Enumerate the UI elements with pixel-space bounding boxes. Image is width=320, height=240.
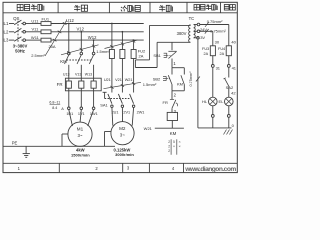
svg-text:FU3: FU3 bbox=[202, 47, 209, 51]
svg-text:U11: U11 bbox=[31, 18, 39, 23]
svg-text:SB2: SB2 bbox=[153, 77, 161, 82]
svg-text:SB1: SB1 bbox=[153, 53, 161, 58]
svg-text:3000r/min: 3000r/min bbox=[115, 152, 134, 157]
svg-text:V13: V13 bbox=[75, 72, 81, 76]
svg-text:U13: U13 bbox=[63, 72, 70, 76]
svg-text:HL: HL bbox=[202, 99, 208, 104]
svg-text:2A: 2A bbox=[219, 52, 224, 56]
svg-text:2: 2 bbox=[168, 145, 170, 149]
svg-text:2: 2 bbox=[168, 149, 170, 153]
svg-text:380V: 380V bbox=[177, 31, 187, 36]
svg-text:50Hz: 50Hz bbox=[15, 49, 25, 54]
svg-text:0.75mm²: 0.75mm² bbox=[210, 29, 226, 34]
svg-text:W11: W11 bbox=[31, 35, 40, 40]
svg-text:W13: W13 bbox=[85, 72, 92, 76]
svg-text:2V1: 2V1 bbox=[123, 110, 130, 114]
svg-text:1W1: 1W1 bbox=[90, 112, 98, 116]
svg-text:U21: U21 bbox=[104, 78, 111, 82]
svg-text:5: 5 bbox=[173, 140, 175, 144]
svg-text:41: 41 bbox=[232, 65, 237, 70]
svg-text:1.5mm²: 1.5mm² bbox=[96, 49, 110, 54]
svg-text:V21: V21 bbox=[115, 78, 122, 82]
svg-text:42: 42 bbox=[231, 90, 236, 95]
svg-text:40: 40 bbox=[231, 40, 236, 45]
svg-text:L1: L1 bbox=[4, 21, 9, 26]
svg-text:1.5mm²: 1.5mm² bbox=[143, 82, 157, 87]
svg-text:0.75mm²: 0.75mm² bbox=[207, 19, 223, 24]
svg-text:W12: W12 bbox=[88, 35, 97, 40]
svg-text:1500r/min: 1500r/min bbox=[71, 152, 90, 157]
svg-text:EL: EL bbox=[219, 99, 225, 104]
svg-text:FR: FR bbox=[163, 100, 168, 105]
svg-text:2A: 2A bbox=[203, 52, 208, 56]
svg-text:PE: PE bbox=[12, 140, 18, 145]
svg-text:SA1: SA1 bbox=[100, 103, 108, 108]
svg-text:L2: L2 bbox=[4, 29, 9, 34]
svg-text:KM: KM bbox=[60, 59, 67, 64]
svg-text:FU1: FU1 bbox=[42, 17, 50, 22]
svg-text:M2: M2 bbox=[119, 126, 126, 131]
svg-text:2A: 2A bbox=[139, 53, 144, 58]
svg-text:V12: V12 bbox=[76, 27, 84, 32]
svg-text:×: × bbox=[178, 145, 180, 149]
svg-text:2: 2 bbox=[168, 140, 170, 144]
svg-text:QS: QS bbox=[13, 16, 19, 21]
svg-text:A: A bbox=[61, 107, 64, 111]
svg-text:TC: TC bbox=[189, 16, 195, 21]
svg-text:FR: FR bbox=[57, 82, 63, 87]
svg-text:2.5mm²: 2.5mm² bbox=[31, 53, 45, 58]
svg-text:www.diangon.com: www.diangon.com bbox=[184, 166, 236, 173]
svg-text:M1: M1 bbox=[77, 127, 84, 132]
svg-text:×: × bbox=[178, 140, 180, 144]
svg-text:KM: KM bbox=[170, 131, 177, 136]
svg-text:FU4: FU4 bbox=[218, 47, 225, 51]
svg-text:SA2: SA2 bbox=[226, 85, 234, 90]
svg-text:W21: W21 bbox=[144, 126, 153, 131]
svg-text:KM: KM bbox=[177, 82, 183, 87]
svg-text:30: 30 bbox=[215, 40, 220, 45]
svg-text:6.8~11: 6.8~11 bbox=[49, 101, 60, 105]
svg-text:2W1: 2W1 bbox=[137, 110, 145, 114]
svg-text:3~: 3~ bbox=[77, 133, 82, 138]
svg-text:8.4: 8.4 bbox=[52, 106, 57, 110]
svg-text:0.75mm²: 0.75mm² bbox=[189, 71, 193, 87]
svg-text:U12: U12 bbox=[66, 18, 74, 23]
svg-text:W21: W21 bbox=[125, 78, 133, 82]
svg-text:L3: L3 bbox=[4, 38, 9, 43]
svg-text:31: 31 bbox=[216, 65, 221, 70]
svg-text:×: × bbox=[173, 145, 175, 149]
svg-text:V11: V11 bbox=[31, 27, 39, 32]
svg-text:3~: 3~ bbox=[120, 132, 125, 137]
